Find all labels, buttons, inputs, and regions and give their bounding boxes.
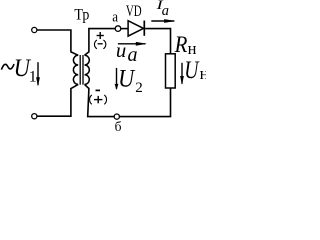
svg-text:б: б bbox=[115, 119, 122, 134]
svg-text:н: н bbox=[188, 39, 197, 58]
terminal circle bottom-left bbox=[32, 114, 37, 119]
terminal circle top-left bbox=[32, 27, 37, 32]
wire: primary bottom bbox=[37, 84, 78, 116]
wire: bottom rail node b to transformer secondary bbox=[85, 84, 115, 116]
svg-text:2: 2 bbox=[135, 80, 143, 96]
polarity (+) bottom bbox=[90, 95, 92, 104]
transformer Tp primary winding bbox=[73, 55, 78, 84]
resistor R_n box bbox=[166, 54, 176, 88]
node a circle bbox=[115, 26, 121, 32]
svg-text:R: R bbox=[174, 32, 188, 57]
svg-text:U: U bbox=[184, 57, 200, 84]
wire: node a to diode bbox=[121, 28, 128, 30]
svg-text:a: a bbox=[128, 44, 138, 66]
node b circle bbox=[114, 114, 119, 119]
polarity (-) top bbox=[94, 40, 96, 49]
svg-text:a: a bbox=[162, 3, 169, 19]
label u_a with right arrow (diode voltage) bbox=[118, 43, 145, 45]
label U_n with down arrow (load voltage) bbox=[181, 63, 183, 84]
svg-text:u: u bbox=[116, 40, 126, 62]
svg-text:н: н bbox=[200, 64, 206, 83]
polarity - bottom bbox=[96, 89, 101, 91]
wire: resistor down and bottom rail to node b bbox=[120, 88, 171, 117]
svg-text:1: 1 bbox=[29, 68, 37, 85]
polarity + top bbox=[97, 35, 104, 37]
transformer Tp secondary winding bbox=[85, 55, 90, 84]
svg-text:Тр: Тр bbox=[74, 7, 89, 24]
svg-text:VD: VD bbox=[126, 3, 142, 20]
svg-text:а: а bbox=[112, 9, 118, 25]
wire: primary top bbox=[37, 30, 78, 55]
wire: diode to top-right corner, down to resistor bbox=[145, 29, 170, 54]
wire: secondary top to node a bbox=[85, 29, 116, 56]
label U2 with down arrow (secondary voltage) bbox=[116, 68, 118, 89]
diode VD triangle bbox=[128, 21, 143, 36]
label ~U1 with down arrow bbox=[1, 64, 14, 70]
transformer core line left bbox=[79, 55, 81, 85]
transformer core line right bbox=[82, 55, 84, 85]
diode VD cathode bar bbox=[143, 21, 145, 36]
svg-text:U: U bbox=[118, 66, 136, 93]
